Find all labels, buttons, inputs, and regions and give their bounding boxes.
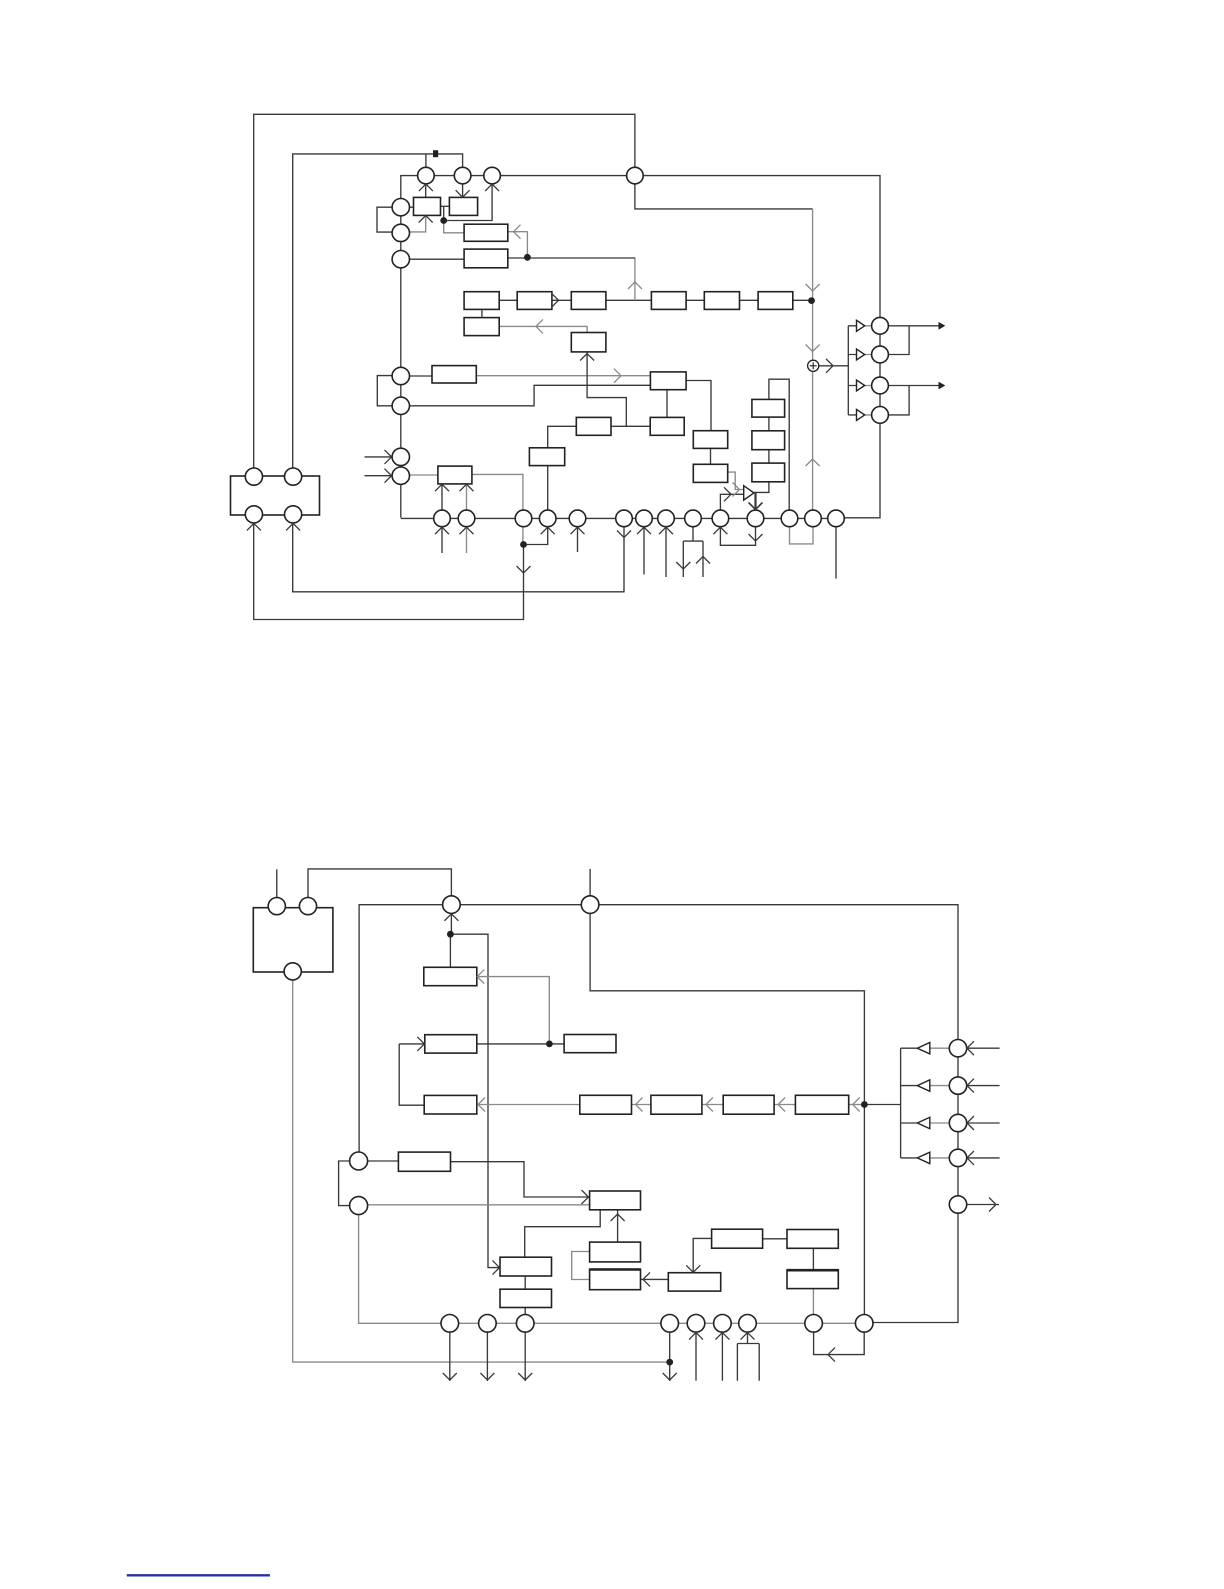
arrowhead box6 to box7 (614, 369, 621, 383)
pin E2 (350, 1197, 368, 1215)
arrowhead pin B10 (713, 527, 727, 534)
block chain b6 (758, 292, 793, 310)
wire E2 to G0 (368, 1204, 590, 1206)
wire chain D4 to junction (849, 1104, 865, 1106)
wire buffer to pin stubs (865, 326, 872, 415)
pin T2 (454, 167, 471, 184)
wire J2 to pin N8 (812, 1289, 814, 1324)
pin Q4 (949, 1149, 966, 1166)
block F1 (398, 1152, 450, 1171)
block crystal unit 2 (253, 908, 333, 972)
arrowhead into pin T3 (485, 184, 499, 191)
wire B1 right from below (477, 977, 550, 1044)
pin E1 (350, 1152, 368, 1170)
arrowhead chain 2-3 (552, 293, 559, 307)
wire stub pin N2 (486, 1332, 488, 1381)
arrowhead into C1 (417, 1037, 424, 1051)
block chain b5 (704, 292, 739, 310)
wire stub pin N5 (695, 1332, 697, 1380)
block chain b1 (464, 292, 499, 310)
wire G2 to G0 (617, 1210, 619, 1242)
wire chain tap vertical (634, 257, 636, 300)
arrowhead into G3 (643, 1272, 650, 1286)
wire into box B1 (449, 934, 451, 967)
wire box11 to box12 (611, 425, 650, 427)
arrowhead into D2 (706, 1098, 713, 1112)
pin B13 (805, 510, 822, 527)
wire U-link pins 12-13 (790, 527, 814, 544)
wire pin B to box1 bottom (410, 215, 426, 232)
block G2 (590, 1242, 641, 1262)
wire top pin row (401, 176, 880, 326)
block stack s1 (752, 399, 785, 417)
wire U-link pins N8-N9 (814, 1332, 865, 1354)
pin B7 (636, 510, 653, 527)
wire J to J2 (812, 1248, 814, 1270)
pin Y2 (299, 898, 316, 915)
arrowhead into box9 a (435, 484, 449, 491)
wire stub pin 8 (665, 527, 667, 577)
arrowhead into pin X4 (286, 523, 300, 530)
wire input arrow 2 (967, 1085, 1000, 1087)
wire pin M2 down long drop (590, 913, 864, 1323)
block G1 (500, 1257, 552, 1276)
arrowhead input 3 (967, 1116, 974, 1130)
block chain D4 (795, 1095, 848, 1114)
wire stack link 2 (768, 450, 770, 463)
block box11 (576, 417, 611, 435)
wire stack link 1 (768, 417, 770, 431)
wire input arrow 3 (967, 1122, 1000, 1124)
buffer V2 (917, 1080, 930, 1091)
wire G1b to pin N3 (524, 1308, 526, 1324)
pin Y1 (268, 898, 285, 915)
buffer V1 (917, 1043, 930, 1054)
wire chain D2-D3 (702, 1104, 723, 1106)
output arrow 1 (939, 322, 946, 330)
arrowhead pin B1 (435, 527, 449, 534)
arrowhead into adder (806, 345, 820, 352)
wire box10 to pin (547, 466, 549, 519)
wire shift chain 5 (740, 299, 759, 301)
pin B1 (434, 510, 451, 527)
pin N8 (805, 1315, 823, 1333)
wire box7 to box12 (666, 390, 668, 418)
arrowhead into pin X3 (247, 523, 261, 530)
wire C1 to C3 (477, 1043, 564, 1045)
wire chain D1-D2 (632, 1104, 651, 1106)
arrowhead chain input (806, 284, 820, 291)
wire G1 to G1b (524, 1276, 526, 1289)
wire control box A out (508, 232, 528, 258)
arrowhead pin N7 in (741, 1333, 755, 1340)
arrowhead into control box A (514, 225, 521, 239)
pin T4 (627, 167, 644, 184)
arrowhead pin N6 in (715, 1333, 729, 1340)
wire pin to box6 (410, 375, 433, 377)
pin N5 (687, 1315, 705, 1333)
junction dot H (666, 1359, 673, 1366)
wire C2 to C1 U-link (399, 1044, 424, 1105)
arrowhead buffer to pin B11 (749, 503, 763, 510)
arrowhead input 1 (967, 1041, 974, 1055)
buffer U4 (857, 409, 865, 420)
buffer U2 (857, 349, 865, 360)
arrowhead into C2 (478, 1098, 485, 1112)
wire stub pin 14 (835, 527, 837, 579)
pin X4 (285, 506, 302, 523)
wire pin Y2 to pin M1 (308, 869, 451, 898)
blue footer rule (127, 1574, 270, 1576)
wire box7 to box14 (686, 381, 711, 431)
wire long top rail (359, 905, 958, 1161)
block control B (464, 249, 508, 268)
arrowhead into box5 (580, 354, 594, 361)
arrowhead G2 to G0 (611, 1214, 625, 1221)
wire stub pin N6 (721, 1332, 723, 1380)
wire chain tap horizontal (508, 257, 635, 259)
wire box6 to box7 (476, 375, 650, 377)
wire box9 out to junction (472, 474, 523, 544)
pin N7 (739, 1315, 757, 1333)
wire from pin down-right (635, 176, 813, 209)
arrowhead into H2 (686, 1265, 700, 1272)
wire ladder branches (848, 326, 856, 415)
block chain b1b (464, 318, 499, 336)
pin N6 (714, 1315, 732, 1333)
arrowhead into box2 (456, 190, 470, 197)
wire into C1 (399, 1043, 425, 1045)
arrowhead N8-N9 link (828, 1348, 835, 1362)
pin N1 (441, 1315, 459, 1333)
wire chain D3-D4 (774, 1104, 795, 1106)
block G3 (590, 1269, 641, 1290)
pin M1 (443, 896, 461, 914)
pin L6 (392, 448, 409, 465)
pin R4 (872, 407, 889, 424)
arrowhead pin N3 out (518, 1373, 532, 1380)
buffer U5 (744, 486, 754, 500)
wire pin to control box B (410, 258, 465, 260)
wire right column down (873, 1057, 958, 1323)
wire bottom pin row (401, 517, 836, 519)
pin B10 (712, 510, 729, 527)
arrowhead pin10 to buffer (724, 487, 731, 501)
pin L3 (392, 251, 409, 268)
buffer U1 (857, 320, 865, 331)
arrowhead box13 to buffer (733, 483, 740, 497)
pin B5 (569, 510, 586, 527)
wire stub above pin M2 (589, 869, 591, 896)
block chain D3 (723, 1095, 774, 1114)
arrowhead bracket out (676, 562, 690, 569)
block box13 (693, 464, 727, 482)
block crystal unit (231, 476, 320, 515)
wire loop pin Y3 to pin N4 (293, 980, 670, 1362)
pin L1 (392, 199, 409, 216)
wire bidir bracket pin 9 (683, 527, 703, 577)
wire pin to box9 bottom a (441, 484, 443, 510)
arrowhead bracket in (696, 557, 710, 564)
wire branch to pin (425, 154, 427, 176)
wire pin stub down b (466, 527, 468, 553)
wire U-link pins D-E (377, 376, 392, 406)
wire into control box A (444, 221, 464, 233)
arrowhead into D1 (636, 1098, 643, 1112)
arrowhead pin N2 out (480, 1373, 494, 1380)
wire stack bottom to buffer (754, 482, 769, 493)
wire pin to box2 top (462, 184, 464, 198)
block C3 (564, 1035, 616, 1053)
block stack s3 (752, 463, 785, 482)
block box2 (449, 197, 477, 215)
wire right column to pin (836, 326, 880, 518)
pin X1 (245, 468, 262, 485)
pin B6 (616, 510, 633, 527)
pin Q5 output (949, 1196, 966, 1213)
pin L5 (392, 397, 409, 414)
arrowhead into G1 (493, 1261, 500, 1275)
wire stub above pin Y1 (276, 869, 278, 897)
junction dot F (546, 1041, 553, 1048)
arrowhead output (989, 1198, 996, 1212)
junction dot E (447, 931, 454, 938)
black tick mark (433, 150, 438, 157)
pin B4 (539, 510, 556, 527)
wire b1 to b1b (481, 309, 483, 317)
wire inter-box drop (443, 206, 445, 220)
wire shift chain 3 (606, 299, 652, 301)
arrowhead pin N5 in (689, 1333, 703, 1340)
arrowhead into box1 bottom (419, 216, 433, 223)
arrowhead pin B5 (571, 527, 585, 534)
block box14 (693, 431, 727, 449)
wire long drop to G1 (450, 934, 500, 1267)
block stack s2 (752, 431, 785, 450)
wire buffer ladder (847, 326, 849, 415)
pin Q3 (949, 1114, 966, 1131)
block B1 (424, 967, 477, 985)
wire junction to ladder (864, 1104, 900, 1106)
wire adder output (819, 365, 849, 367)
pin B11 (747, 510, 764, 527)
pin B9 (685, 510, 702, 527)
pin Y3 (284, 963, 301, 980)
wire shift chain 2 (552, 299, 571, 301)
pin N4 (661, 1315, 679, 1333)
arrowhead adder out (826, 359, 833, 373)
buffer U3 (857, 380, 865, 391)
block box6 (432, 366, 476, 383)
wire input arrow 4 (967, 1157, 1000, 1159)
wire stub pin 5 (577, 527, 579, 552)
wire U-link G2-G3 (572, 1252, 590, 1280)
block chain b3 (571, 292, 606, 310)
block H2 (668, 1273, 720, 1291)
block J2 (787, 1270, 838, 1289)
block chain b2 (517, 292, 552, 310)
block chain D1 (580, 1095, 632, 1114)
pin R1 (872, 317, 889, 334)
wire pin M1 down (450, 913, 452, 934)
wire pin to box9 bottom b (466, 484, 468, 510)
block chain D2 (651, 1095, 702, 1114)
wire box5 to box4b (499, 326, 587, 332)
wire box13 to buffer in (728, 472, 744, 489)
wire input arrow G (365, 475, 392, 477)
wire grey drop to adder and pin (812, 209, 814, 519)
wire G1 top to G0 bottom (525, 1210, 601, 1257)
buffer V4 (917, 1152, 930, 1163)
wire pin to box1 (410, 206, 414, 208)
wire U-link pins A-B (377, 207, 392, 232)
pin R2 (872, 346, 889, 363)
junction dot D (520, 541, 527, 548)
pin R3 (872, 377, 889, 394)
wire output line 2 (888, 385, 939, 387)
pin T3 (484, 167, 501, 184)
pin Q1 (949, 1040, 966, 1057)
block box5 (571, 333, 606, 352)
pin B12 (781, 510, 798, 527)
block G0 (590, 1191, 641, 1210)
wire input arrow 1 (967, 1047, 1000, 1049)
block box1 (414, 197, 441, 215)
wire shift chain 4 (686, 299, 704, 301)
wire between boxes (441, 205, 450, 207)
arrowhead into pin T1 (419, 184, 433, 191)
arrowhead input 2 (967, 1079, 974, 1093)
pin B8 (658, 510, 675, 527)
arrowhead into box9 b (460, 484, 474, 491)
arrowhead into B1 (477, 970, 484, 984)
block J (787, 1230, 838, 1249)
wire stub pin N1 (449, 1332, 451, 1381)
wire stub pin 7 (643, 527, 645, 575)
arrowhead input F (385, 450, 392, 464)
wire stub pin N3 (524, 1332, 526, 1381)
wire pin G to box9 (410, 474, 438, 476)
adder (808, 360, 819, 371)
block C1 (425, 1035, 477, 1053)
wire output join 2 (888, 386, 909, 415)
wire D1 to C2 (477, 1104, 580, 1106)
wire bidir bracket pin N7 (737, 1332, 759, 1380)
arrowhead pin N4 out (663, 1373, 677, 1380)
pin M2 (581, 896, 599, 914)
wire output join 1 (888, 326, 909, 355)
wire pin to box1 top (425, 184, 427, 198)
arrowhead pin B11 link (749, 534, 763, 541)
block I1 (712, 1229, 763, 1248)
wire box14 to box13 (710, 448, 712, 464)
buffer V3 (917, 1117, 930, 1128)
arrowhead input G (385, 469, 392, 483)
wire outer feedback loop A (254, 114, 635, 619)
wire left pin column (400, 216, 402, 518)
pin X3 (245, 506, 262, 523)
arrowhead pin B6 out (617, 531, 631, 538)
arrowhead up to adder (806, 459, 820, 466)
wire stack top loop to pin 12 (769, 379, 789, 510)
pin N2 (479, 1315, 497, 1333)
wire pin stub down a (441, 527, 443, 553)
arrowhead into b1b (536, 319, 543, 333)
arrowhead into D3 (778, 1098, 785, 1112)
wire H2 to G3 (641, 1278, 669, 1280)
wire F1 to G0 (451, 1162, 590, 1197)
pin N9 (855, 1315, 873, 1333)
wire outer feedback loop B (293, 154, 624, 592)
wire pin E to box7 (410, 385, 651, 406)
arrowhead into G0 (582, 1190, 589, 1204)
wire pin 10 up to buffer (720, 494, 743, 510)
wire U-link pins 10-11 (720, 527, 755, 546)
arrowhead pin B7 (637, 527, 651, 534)
wire E1 to F1 (368, 1160, 399, 1162)
pin N3 (516, 1315, 534, 1333)
pin X2 (285, 468, 302, 485)
arrowhead pin B2 (460, 527, 474, 534)
arrowhead into D4 (853, 1098, 860, 1112)
junction dot G (861, 1101, 868, 1108)
pin L2 (392, 224, 409, 241)
wire I1 to J (763, 1238, 787, 1240)
block box12 (650, 417, 684, 435)
wire shift chain 1 (499, 299, 517, 301)
wire box5 bottom path (587, 352, 626, 426)
block G1b (500, 1289, 552, 1307)
wire junction to pin (524, 527, 548, 545)
wire output line 1 (888, 325, 939, 327)
block C2 (424, 1095, 477, 1114)
arrowhead pin N1 out (443, 1373, 457, 1380)
wire buffer stubs B (930, 1048, 950, 1158)
wire output arrow (967, 1204, 999, 1206)
output arrow 2 (939, 382, 946, 390)
wire buffer out bold (754, 493, 756, 511)
wire U-link E1-E2 (339, 1161, 350, 1206)
pin Q2 (949, 1077, 966, 1094)
pin B2 (458, 510, 475, 527)
pin L4 (392, 367, 409, 384)
wire stub pin N4 (669, 1332, 671, 1381)
wire box10 top to box11 (548, 426, 577, 448)
arrowhead loop A out (517, 566, 531, 573)
block chain b4 (651, 292, 686, 310)
block box7 (650, 372, 686, 390)
wire ladder branches B (901, 1048, 918, 1158)
arrowhead chain tap (628, 282, 642, 289)
block control A (464, 224, 508, 241)
junction dot A (440, 217, 447, 224)
wire input arrow F (365, 456, 392, 458)
junction dot B (524, 254, 531, 261)
arrowhead input 4 (967, 1151, 974, 1165)
arrowhead into pin M1 (444, 914, 458, 921)
wire buffer ladder B (900, 1048, 902, 1158)
wire I1 to H2 (693, 1238, 711, 1272)
pin L7 (392, 467, 409, 484)
arrowhead pin B8 (659, 527, 673, 534)
wire up to pin 3 (444, 184, 492, 221)
wire bottom pin row rail (359, 1215, 865, 1324)
arrowhead into pin B4 (541, 527, 555, 534)
pin B14 (828, 510, 845, 527)
block box10 (529, 448, 564, 466)
pin B3 (515, 510, 532, 527)
block box9 (438, 466, 472, 484)
